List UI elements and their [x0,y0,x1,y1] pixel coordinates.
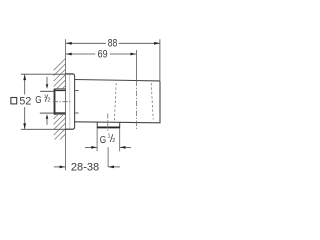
label G 1/2 (wall socket) [35,94,50,107]
dimension square 52 [21,74,73,129]
union body outline [75,80,160,123]
dimension 88 [66,39,160,81]
hidden cone lines (dashed) [114,83,116,120]
outlet stub [97,122,120,128]
thread leader up-arrow [46,119,48,125]
svg-text:69: 69 [98,49,108,61]
wall face line / dimension extension [65,39,67,170]
flange (square escutcheon, side view) [66,74,75,129]
G1/2 outlet dimension arrows + extensions [96,128,98,151]
thread nipple lines inside body [75,90,79,92]
svg-text:52: 52 [19,96,31,108]
label G 1/2 (outlet) [100,134,116,147]
thread leader down-arrow [46,77,48,85]
svg-text:28-38: 28-38 [71,162,99,174]
svg-text:88: 88 [108,37,118,49]
svg-text:2: 2 [112,138,115,144]
wall hatch [54,59,66,140]
svg-text:1: 1 [108,134,111,140]
svg-text:G: G [35,94,41,106]
dimension 69 [66,53,136,55]
square symbol [11,98,17,104]
in-wall threaded socket [55,89,66,115]
dimension 28-38 [54,166,65,168]
outlet centerline [107,114,109,132]
socket thread extension lines (left) [40,90,55,92]
socket horizontal centerline [53,101,71,103]
svg-text:G: G [100,134,106,146]
flange inner seam line [69,74,71,128]
holder centerline [135,50,137,81]
svg-text:2: 2 [47,98,50,104]
